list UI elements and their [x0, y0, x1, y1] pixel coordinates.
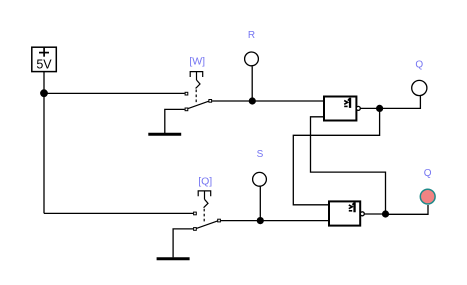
ground (top) — [148, 109, 184, 134]
nor gate U1 — [324, 97, 360, 121]
node Q junction — [376, 105, 383, 112]
node R junction — [249, 97, 256, 104]
switch Q pole terminal — [218, 219, 221, 222]
node S junction — [257, 217, 264, 224]
battery B1 (5V) — [32, 47, 57, 71]
probe Q — [412, 80, 427, 95]
probe S — [253, 172, 267, 186]
svg-text:5V: 5V — [36, 57, 52, 71]
svg-text:S: S — [257, 149, 264, 160]
wire node Qbar to probe Qbar — [386, 205, 429, 214]
node battery junction — [40, 89, 48, 97]
wire node Q to probe Q — [380, 96, 421, 108]
switch Q lower-left terminal — [194, 228, 197, 231]
switch W upper-left terminal — [185, 92, 188, 95]
switch Q arm — [196, 221, 217, 229]
probe Qbar (active, red) — [420, 189, 435, 204]
wire U1 output feedback to U2 input A — [293, 108, 379, 204]
wire switch W pole to gate U1 input A — [212, 100, 324, 102]
wire U2 output to node — [364, 213, 385, 215]
svg-text:[Q]: [Q] — [198, 176, 212, 188]
ground (bottom) — [157, 229, 194, 259]
switch W lower-left terminal — [185, 108, 188, 111]
wire battery bottom rail vertical — [43, 72, 45, 214]
node Qbar junction — [382, 210, 389, 217]
wire battery to switch W upper terminal — [44, 92, 185, 94]
svg-text:Q: Q — [415, 59, 423, 70]
switch Q upper-left terminal — [194, 212, 197, 215]
svg-text:[W]: [W] — [189, 56, 205, 68]
nor gate U2 — [329, 201, 364, 225]
svg-text:R: R — [248, 30, 255, 41]
wire battery rail to switch Q upper terminal — [44, 212, 193, 214]
wire U1 output to node — [360, 107, 379, 109]
wire U2 output feedback to U1 input B — [311, 117, 386, 214]
svg-text:Q: Q — [424, 168, 432, 179]
switch Q pushbutton actuator — [198, 191, 211, 223]
probe R — [245, 52, 259, 66]
wire probe S to node — [259, 187, 261, 221]
switch W pole terminal — [209, 100, 212, 103]
switch W arm — [188, 101, 209, 108]
switch W pushbutton actuator — [190, 72, 203, 103]
wire switch Q pole to gate U2 input B — [221, 220, 329, 222]
wire probe R to node — [251, 66, 253, 101]
